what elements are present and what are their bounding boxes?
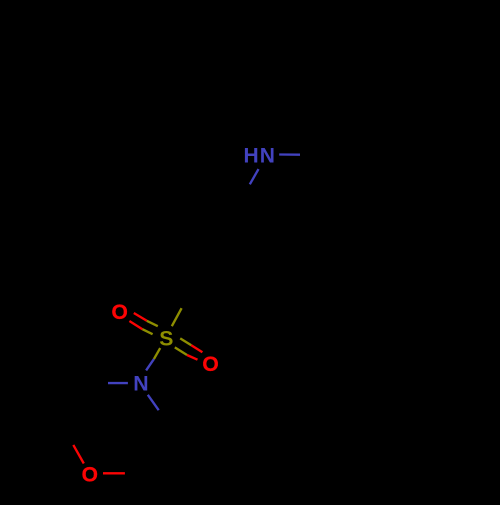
- wire O-C bond right (O half, red): [103, 472, 125, 474]
- amine label HN: [244, 145, 275, 168]
- wire N-C bond down-right (N half, blue): [148, 395, 159, 410]
- wire N-aryl bond (N half, blue): [250, 169, 259, 184]
- svg-text:O: O: [202, 353, 218, 376]
- wire S=O2 double bond upper line: [180, 338, 202, 352]
- svg-text:H: H: [244, 145, 259, 168]
- wire S=O1 double bond lower line: [129, 321, 152, 334]
- wire C-O bond up-left (O half, red): [73, 445, 84, 464]
- svg-text:N: N: [133, 372, 148, 396]
- svg-text:S: S: [159, 328, 173, 351]
- wire N-C bond left (N half, blue): [108, 382, 128, 384]
- svg-text:N: N: [260, 145, 275, 168]
- wire S-aryl bond (S half, olive): [172, 308, 182, 326]
- svg-text:O: O: [82, 464, 98, 487]
- wire S=O2 double bond lower line: [175, 347, 198, 359]
- wire N-CH2 bond (N half, blue): [279, 153, 300, 156]
- wire S-N bond (S half olive, N half blue): [146, 348, 160, 370]
- svg-text:O: O: [112, 301, 128, 324]
- wire S=O1 double bond upper line: [134, 313, 158, 326]
